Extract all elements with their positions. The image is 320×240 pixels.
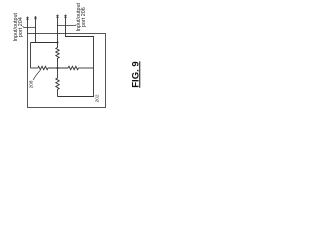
wire R2 to right vertical	[78, 67, 93, 69]
label Input/output port 204	[14, 12, 24, 42]
wire port2 down to node wire	[35, 16, 37, 42]
leader line label 204	[23, 26, 36, 27]
wire between R1 and R2	[48, 67, 68, 69]
wire stub down to bottom wire	[30, 43, 32, 69]
resistor R1 horizontal	[38, 66, 48, 69]
terminal x1	[26, 17, 28, 19]
terminal x2	[34, 17, 36, 19]
leader arc label 208	[33, 71, 40, 81]
node J2 junction dot	[56, 67, 58, 69]
node J1 junction dot	[56, 41, 58, 43]
label 202	[96, 93, 101, 103]
wire port3 down to node J1	[57, 15, 59, 43]
resistor R2 horizontal	[68, 66, 78, 69]
chip outline box 202	[28, 34, 106, 108]
resistor R4 vertical	[56, 68, 59, 97]
wire node J1 horizontal	[31, 42, 58, 44]
label Input/output port 206	[77, 2, 87, 32]
figure caption FIG. 9	[131, 62, 141, 88]
label 208	[29, 80, 34, 90]
wire port4 right loop down to bottom	[58, 15, 94, 97]
wire port1 down to box corner	[27, 17, 29, 34]
wire bottom left lead	[31, 67, 38, 69]
terminal x4	[64, 15, 66, 17]
terminal x3	[56, 15, 58, 17]
leader line label 206	[58, 25, 77, 26]
resistor R3 vertical	[56, 43, 59, 69]
